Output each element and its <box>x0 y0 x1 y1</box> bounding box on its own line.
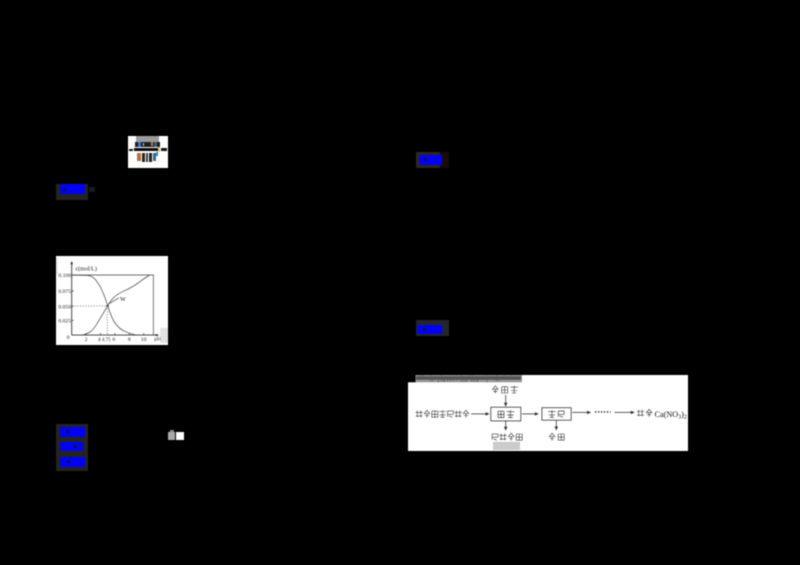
grey band over numerator <box>136 136 159 144</box>
label 硝酸工业的尾气 <box>416 410 470 417</box>
small inline formula patch (grey+white) <box>168 432 175 440</box>
label 气体排放 <box>492 433 522 441</box>
label 石灰乳 <box>492 385 518 393</box>
blue answer text (right, q3) <box>417 325 442 334</box>
cut-off heading text strip <box>416 375 523 382</box>
flow diagram white background <box>408 375 688 451</box>
svg-text:10: 10 <box>141 337 147 343</box>
arrow 吸收 to 过滤 <box>522 412 535 414</box>
point W dot <box>106 304 109 307</box>
chart y-axis <box>71 263 73 335</box>
dotted guide lines to W <box>72 305 107 307</box>
blue answer text (left, q1) <box>60 184 85 194</box>
svg-text:4.75: 4.75 <box>102 338 111 343</box>
x tick marks <box>86 333 144 335</box>
svg-text:c(mol/L): c(mol/L) <box>76 265 97 272</box>
svg-text:4: 4 <box>98 337 101 343</box>
arrow 过滤 down <box>555 420 557 427</box>
svg-text:W: W <box>120 296 126 303</box>
answer highlight panel (right, q2) <box>416 152 440 168</box>
label 滤渣 <box>549 433 564 441</box>
fraction bar <box>134 148 158 152</box>
arrow 过滤 to dots <box>572 411 587 413</box>
distribution chart image <box>56 256 168 345</box>
answer highlight panel (left, stack of 3) <box>56 424 88 471</box>
inline formula image (fraction) <box>128 136 168 168</box>
arrow dots to product <box>615 411 632 413</box>
answer highlight panel (right, q3) <box>416 320 449 336</box>
W connector line <box>109 297 119 303</box>
chart frame <box>72 275 154 335</box>
ellipsis dots <box>595 410 611 412</box>
answer highlight panel (left, q1) <box>56 184 88 201</box>
box 吸收 <box>491 407 521 421</box>
label 无水 <box>637 409 652 416</box>
chart x-axis <box>72 334 157 336</box>
blue text line 2 <box>60 442 83 451</box>
grey patch bottom right <box>160 327 168 342</box>
grey selection under 气体排放 <box>493 441 520 449</box>
numerator text smear <box>135 142 160 147</box>
svg-text:8: 8 <box>128 337 131 343</box>
arrow tail gas to 吸收 <box>471 412 486 414</box>
arrow 吸收 down <box>505 420 507 427</box>
blue answer text (right, q2) <box>419 155 443 165</box>
denominator glyphs <box>137 153 141 162</box>
ascending curve <box>82 275 149 335</box>
box 过滤 <box>542 407 571 420</box>
svg-text:Ca(NO3)2: Ca(NO3)2 <box>655 410 687 420</box>
texture dots on blue lines <box>66 430 69 433</box>
descending curve <box>72 275 136 335</box>
y tick marks <box>72 275 74 320</box>
svg-text:0.075: 0.075 <box>58 289 71 295</box>
svg-text:0.025: 0.025 <box>58 318 71 324</box>
svg-text:0.100: 0.100 <box>58 273 71 279</box>
svg-text:2: 2 <box>85 337 88 343</box>
svg-text:0: 0 <box>67 335 70 341</box>
svg-text:6: 6 <box>113 337 116 343</box>
blue text line 1 <box>60 427 85 437</box>
arrow 石灰乳 down to 吸收 <box>505 395 507 404</box>
svg-text:0.050: 0.050 <box>58 304 71 310</box>
svg-text:pH: pH <box>154 336 161 342</box>
process flow diagram image <box>408 375 688 451</box>
blue text line 3 <box>60 457 85 467</box>
faint grey remnant right of q1 panel <box>89 187 95 191</box>
